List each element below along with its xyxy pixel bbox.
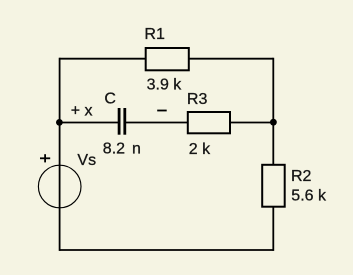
svg-text:R1: R1 [144, 26, 165, 43]
wire bottom [59, 249, 273, 251]
svg-text:3.9 k: 3.9 k [147, 77, 183, 94]
wire middle from capacitor C right plate to R3 left [126, 122, 188, 124]
svg-text:5.6 k: 5.6 k [291, 187, 327, 204]
resistor R3 [188, 112, 230, 133]
capacitor C plate left [118, 108, 121, 135]
svg-text:2 k: 2 k [189, 141, 211, 158]
svg-text:+ x: + x [71, 102, 93, 119]
wire right vertical lower from R2 to bottom [272, 207, 274, 251]
svg-text:Vs: Vs [77, 152, 96, 169]
svg-text:C: C [104, 91, 116, 108]
svg-text:n: n [132, 141, 141, 158]
wire middle from R3 right to node B [231, 122, 274, 124]
wire top from node A to R1 left [59, 58, 145, 60]
resistor R1 [146, 48, 189, 70]
wire middle from node A to capacitor C left plate [59, 122, 118, 124]
svg-text:R2: R2 [291, 168, 312, 185]
wire right vertical upper from top corner to R2 [272, 58, 274, 165]
svg-text:8.2: 8.2 [103, 141, 125, 158]
wire left vertical from top corner through Vs to bottom [59, 58, 61, 251]
voltage source Vs circle [38, 165, 81, 208]
resistor R2 [262, 165, 285, 207]
wire top from R1 right to top-right corner [189, 58, 273, 60]
node A junction dot [56, 119, 63, 126]
node B junction dot [270, 119, 277, 126]
polarity − across C [157, 110, 167, 112]
polarity + of Vs [40, 157, 50, 159]
capacitor C plate right [123, 108, 126, 135]
svg-text:R3: R3 [187, 91, 208, 108]
